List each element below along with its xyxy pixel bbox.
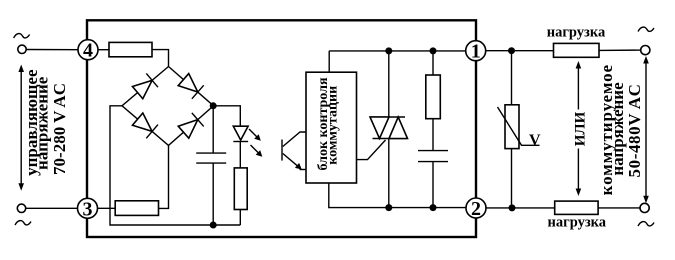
wire to R4 [432, 51, 434, 75]
svg-text:коммутации: коммутации [326, 86, 341, 165]
resistor R2 [115, 201, 158, 216]
wire terminal3 to R2 [98, 207, 116, 209]
ac tilde bottom-right [638, 222, 654, 226]
load resistor top [554, 43, 600, 57]
wire R1 to bridge top [152, 50, 169, 67]
wire block bottom [329, 183, 466, 208]
node varistor bottom [509, 204, 516, 211]
switched voltage range arrow [643, 56, 649, 203]
diode VD1 top-left [132, 73, 158, 99]
terminal 4 [78, 40, 98, 60]
diode VD3 bottom-left [132, 112, 158, 138]
control block U1 [306, 72, 357, 183]
ac source tilde bottom-left [15, 221, 31, 225]
diode VD2 top-right [178, 73, 204, 99]
label switched voltage [597, 64, 644, 195]
triac VS1 [370, 51, 408, 208]
wire input bottom [26, 207, 78, 209]
control voltage range arrow [18, 65, 24, 191]
svg-text:ИЛИ: ИЛИ [573, 111, 589, 146]
wire bridge plus to led [213, 106, 240, 126]
svg-text:4: 4 [83, 40, 93, 62]
node bridge plus [210, 102, 217, 109]
svg-text:70-280 V AC: 70-280 V AC [50, 83, 69, 175]
wire varistor top branch [511, 51, 513, 105]
svg-text:нагрузка: нагрузка [548, 214, 607, 230]
wire C1 to rail [212, 163, 214, 225]
node snubber bottom [430, 204, 437, 211]
wire R2 to bridge bottom [159, 145, 169, 208]
wire load1 to output [599, 49, 641, 51]
wire top rail [329, 50, 466, 52]
label ИЛИ [573, 110, 589, 149]
ac tilde top-right [638, 27, 654, 31]
terminal 3 [78, 198, 98, 218]
wire C2 to rail [432, 162, 434, 208]
svg-text:2: 2 [471, 198, 481, 220]
resistor R1 [109, 42, 152, 56]
capacitor C2 [418, 151, 448, 162]
svg-text:1: 1 [471, 41, 481, 63]
output terminal bottom-right [640, 203, 649, 212]
wire bridge left to dc minus rail [110, 106, 240, 225]
capacitor C1 [196, 153, 226, 163]
wire R4 to C2 [432, 119, 434, 151]
terminal 2 [466, 198, 486, 218]
light arrow 1 [249, 129, 261, 141]
input terminal bottom-left [17, 204, 25, 212]
wire bridge plus to C1 [212, 106, 214, 153]
led of optocoupler [233, 126, 248, 168]
node varistor top [508, 47, 515, 54]
diode bridge diamond wires [122, 67, 214, 146]
label control voltage [22, 69, 69, 176]
wire load2 to output [598, 207, 640, 209]
varistor RU [498, 105, 540, 149]
resistor R4 [426, 75, 441, 119]
node dc minus [210, 222, 217, 229]
wire input top [26, 49, 78, 51]
light arrow 2 [251, 145, 263, 157]
wire terminal4 to R1 [98, 49, 109, 51]
input terminal top-left [18, 45, 26, 53]
wire block top [328, 51, 330, 72]
svg-text:3: 3 [83, 198, 93, 220]
label control block [316, 77, 341, 171]
svg-text:нагрузка: нагрузка [547, 25, 606, 41]
output terminal top-right [641, 46, 650, 55]
svg-text:50-480V AC: 50-480V AC [625, 84, 644, 178]
ac source tilde top-left [14, 34, 30, 38]
node triac top [385, 47, 392, 54]
load resistor bottom [555, 201, 598, 214]
phototransistor Q1 [282, 132, 306, 170]
relay enclosure box [87, 20, 476, 237]
wire terminal2 to load2 [487, 207, 555, 209]
wire R3 to rail [239, 210, 241, 226]
node triac bottom [385, 204, 392, 211]
gate wire [357, 140, 386, 160]
or-arrow between loads [576, 61, 582, 196]
svg-text:V: V [529, 132, 541, 149]
wire terminal1 to load1 [486, 50, 554, 52]
terminal 1 [466, 41, 486, 61]
wire varistor bottom branch [511, 149, 513, 208]
resistor R3 [234, 168, 247, 210]
node snubber top [430, 47, 437, 54]
svg-text:напряжение: напряжение [32, 76, 51, 170]
diode VD4 bottom-right [178, 113, 204, 139]
